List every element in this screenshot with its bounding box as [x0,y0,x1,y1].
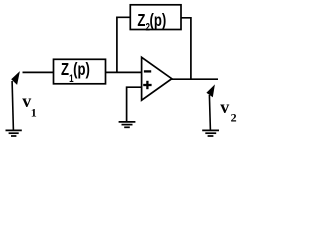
svg-text:2: 2 [231,111,237,125]
svg-text:Z: Z [137,11,145,30]
svg-text:(p): (p) [150,11,167,30]
svg-text:1: 1 [31,106,37,120]
svg-text:v: v [220,97,229,117]
svg-text:(p): (p) [73,60,90,79]
svg-text:Z: Z [61,60,69,79]
